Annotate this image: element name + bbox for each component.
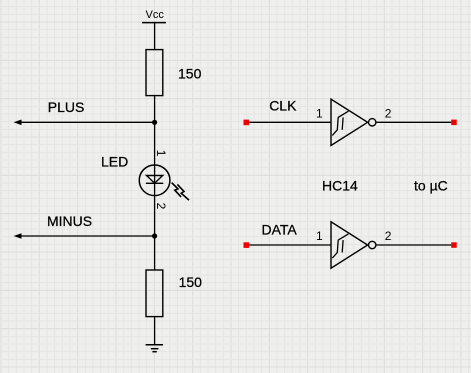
svg-text:150: 150 bbox=[179, 274, 203, 290]
svg-text:2: 2 bbox=[385, 229, 392, 243]
svg-text:HC14: HC14 bbox=[322, 177, 358, 193]
svg-text:PLUS: PLUS bbox=[48, 99, 85, 115]
svg-text:Vcc: Vcc bbox=[146, 9, 165, 21]
svg-text:DATA: DATA bbox=[262, 222, 298, 238]
svg-text:2: 2 bbox=[385, 106, 392, 120]
svg-text:1: 1 bbox=[316, 106, 323, 120]
svg-text:LED: LED bbox=[101, 153, 128, 169]
svg-text:1: 1 bbox=[154, 150, 168, 157]
svg-text:MINUS: MINUS bbox=[47, 213, 92, 229]
svg-text:2: 2 bbox=[154, 203, 168, 210]
svg-text:CLK: CLK bbox=[269, 97, 297, 113]
svg-text:150: 150 bbox=[178, 65, 202, 81]
svg-text:to µC: to µC bbox=[414, 177, 448, 193]
svg-text:1: 1 bbox=[316, 229, 323, 243]
